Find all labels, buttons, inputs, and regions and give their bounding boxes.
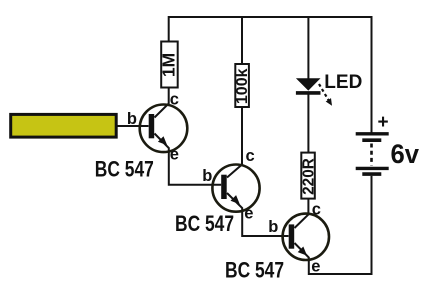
svg-text:c: c	[246, 147, 255, 165]
svg-text:220R: 220R	[300, 158, 317, 195]
svg-text:e: e	[170, 146, 179, 164]
svg-text:b: b	[202, 167, 212, 185]
svg-text:c: c	[170, 90, 179, 108]
svg-text:+: +	[378, 112, 389, 133]
svg-text:e: e	[244, 205, 253, 223]
svg-text:c: c	[312, 200, 321, 218]
svg-text:1M: 1M	[159, 53, 179, 77]
svg-text:BC 547: BC 547	[95, 157, 154, 182]
svg-text:6v: 6v	[391, 139, 420, 169]
svg-text:LED: LED	[324, 72, 362, 93]
svg-text:b: b	[127, 110, 137, 128]
svg-text:BC 547: BC 547	[175, 211, 234, 236]
svg-text:BC 547: BC 547	[225, 257, 284, 282]
svg-text:e: e	[311, 258, 320, 276]
svg-text:100k: 100k	[234, 68, 251, 104]
svg-text:b: b	[268, 218, 278, 236]
